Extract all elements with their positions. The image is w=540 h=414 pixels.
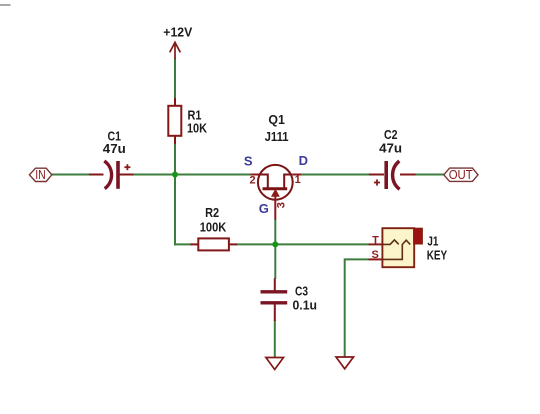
capacitor C2 pins bbox=[369, 174, 384, 176]
capacitor C1 curved plate bbox=[104, 161, 111, 189]
svg-text:OUT: OUT bbox=[449, 168, 473, 182]
Q1 drain lead inside bbox=[284, 175, 292, 188]
wire C1 to junction A to Q1 S bbox=[133, 174, 252, 176]
Q1 channel bar bbox=[263, 187, 288, 190]
svg-text:C3: C3 bbox=[295, 283, 308, 298]
capacitor C2 curved plate bbox=[393, 161, 400, 189]
wire junction B to J1 T pin bbox=[275, 243, 369, 245]
svg-text:0.1u: 0.1u bbox=[293, 298, 318, 313]
capacitor C3 pins bbox=[274, 278, 276, 290]
svg-text:D: D bbox=[299, 153, 308, 168]
svg-text:3: 3 bbox=[275, 202, 287, 208]
wire +12V to R1 bbox=[174, 58, 176, 100]
junction A bbox=[172, 172, 178, 178]
wire Q1 D to C2 bbox=[301, 174, 371, 176]
svg-text:47u: 47u bbox=[103, 141, 126, 156]
wire R1 to junction A down to R2 row bbox=[174, 143, 176, 245]
svg-text:+12V: +12V bbox=[163, 25, 192, 40]
wire R2 right pin to junction B bbox=[236, 243, 276, 245]
wire Q1 gate to junction B bbox=[274, 219, 276, 245]
svg-text:KEY: KEY bbox=[427, 248, 448, 263]
junction B bbox=[272, 241, 278, 247]
J1 S pin bbox=[369, 258, 383, 260]
wire C2 to OUT bbox=[415, 174, 444, 176]
capacitor C1 straight plate bbox=[116, 161, 120, 189]
Q1 drain pin bbox=[293, 174, 301, 176]
svg-text:100K: 100K bbox=[200, 219, 227, 234]
svg-text:47u: 47u bbox=[379, 141, 402, 156]
capacitor C2 plus sign bbox=[374, 179, 380, 185]
capacitor C1 pins bbox=[89, 174, 104, 176]
J1 sleeve square bbox=[414, 228, 423, 244]
svg-text:2: 2 bbox=[250, 174, 256, 186]
svg-text:Q1: Q1 bbox=[268, 112, 285, 127]
Q1 gate arrowhead bbox=[272, 190, 279, 197]
ground 2 below J1 S bbox=[336, 357, 354, 369]
transistor Q1 J111 circle bbox=[258, 165, 293, 200]
capacitor C1 plus sign bbox=[124, 164, 130, 170]
capacitor C2 straight plate bbox=[384, 161, 388, 189]
Q1 source lead inside bbox=[258, 175, 268, 188]
wire J1 S pin left then down to ground 2 bbox=[345, 259, 369, 357]
svg-text:S: S bbox=[372, 249, 379, 261]
svg-text:G: G bbox=[259, 201, 269, 216]
port IN bbox=[29, 168, 51, 181]
svg-text:IN: IN bbox=[35, 168, 46, 182]
J1 tip contact zigzag bbox=[382, 240, 398, 245]
resistor R2 bbox=[191, 243, 199, 245]
port OUT bbox=[444, 168, 478, 181]
J1 T pin bbox=[369, 243, 383, 245]
capacitor C3 bottom plate bbox=[261, 301, 288, 304]
J1 sleeve contact zigzag bbox=[382, 240, 410, 259]
capacitor C3 top plate bbox=[261, 290, 288, 293]
connector J1 body bbox=[382, 228, 414, 267]
svg-text:R2: R2 bbox=[205, 205, 219, 220]
Q1 gate pin bbox=[274, 194, 276, 220]
svg-text:S: S bbox=[244, 153, 253, 168]
svg-text:10K: 10K bbox=[187, 120, 208, 135]
wire C3 to ground 1 bbox=[274, 320, 276, 358]
ground 1 below C3 bbox=[266, 358, 284, 370]
wire IN to C1 bbox=[52, 174, 91, 176]
wire junction B down to C3 bbox=[274, 244, 276, 279]
svg-text:J111: J111 bbox=[265, 129, 289, 144]
svg-text:J1: J1 bbox=[427, 234, 438, 249]
svg-text:T: T bbox=[372, 235, 379, 247]
wire corner to R2 left pin bbox=[174, 243, 192, 245]
power symbol +12V arrow bbox=[170, 42, 181, 59]
resistor R1 bbox=[174, 98, 176, 106]
svg-text:1: 1 bbox=[295, 174, 301, 186]
Q1 source pin bbox=[251, 174, 259, 176]
